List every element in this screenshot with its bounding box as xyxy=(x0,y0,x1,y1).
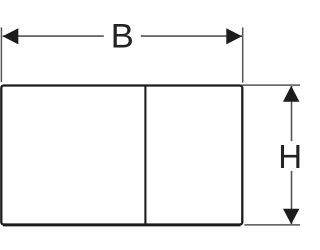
extension line bottom (H) xyxy=(245,224,301,226)
extension line top (H) xyxy=(242,84,300,86)
arrowhead B right xyxy=(226,28,242,44)
divider line xyxy=(144,86,146,225)
dimension line B left segment xyxy=(3,35,104,37)
arrowhead B left xyxy=(3,28,19,44)
extension line left (B) xyxy=(0,27,2,82)
dimension line H lower segment xyxy=(291,171,293,224)
arrowhead H top xyxy=(283,86,299,102)
extension line right (B) xyxy=(242,27,244,82)
svg-text:H: H xyxy=(278,138,300,175)
dimension line H upper segment xyxy=(291,86,293,141)
dimension line B right segment xyxy=(141,35,242,37)
plate outline xyxy=(1,86,242,225)
plate bottom edge (thicker) xyxy=(3,223,241,226)
svg-text:B: B xyxy=(111,18,134,56)
arrowhead H bottom xyxy=(283,209,299,225)
